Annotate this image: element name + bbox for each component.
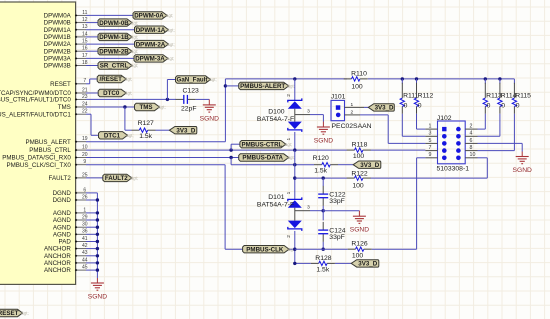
pin 8 J102	[465, 150, 477, 152]
junction R112 top	[415, 77, 418, 80]
svg-text:/RESET: /RESET	[100, 76, 123, 83]
resistor R126	[348, 248, 356, 250]
svg-text:1: 1	[286, 191, 292, 194]
ground SGND C123	[208, 99, 210, 105]
svg-text:3: 3	[307, 109, 310, 115]
wire FAULT2	[86, 177, 103, 179]
wire ground pin	[86, 269, 97, 271]
wire CLK row east	[295, 248, 348, 250]
wire top bus	[225, 78, 347, 80]
pin 29 AGND	[76, 219, 86, 221]
wire D101 bottom lead	[294, 231, 296, 264]
svg-text:SGND: SGND	[350, 227, 369, 234]
wire ground pin	[86, 199, 97, 201]
svg-text:0: 0	[487, 103, 491, 110]
wire R127 to 3V3_D	[156, 129, 170, 131]
pin 41 PAD	[76, 241, 86, 243]
junction D100 bottom	[293, 148, 296, 151]
pin 36 AGND	[76, 233, 86, 235]
wire R112 to J102 pin1	[416, 114, 418, 129]
wire R115 to J102	[513, 114, 515, 151]
svg-text:R126: R126	[351, 240, 367, 247]
wire SR_CTRL	[86, 65, 98, 67]
wire DPWM-2B	[86, 50, 98, 52]
svg-text:/RESET: /RESET	[0, 310, 19, 317]
svg-text:1: 1	[429, 124, 432, 130]
svg-text:&gt;: &gt;	[167, 27, 174, 32]
svg-text:FAULT2: FAULT2	[105, 175, 128, 182]
net label PMBUS-ALERT	[239, 82, 289, 89]
pin 25 FAULT2	[76, 177, 86, 179]
ground SGND D100	[322, 122, 324, 128]
svg-text:PMBUS-CTRL: PMBUS-CTRL	[241, 141, 282, 148]
pin 2 J102	[465, 128, 477, 130]
net label FAULT2	[103, 174, 132, 181]
wire J101 pin2	[345, 114, 361, 116]
svg-text:SR_CTRL: SR_CTRL	[100, 63, 129, 70]
junction PMBUS-ALERT flag	[224, 84, 227, 87]
net label DPWM-1B	[98, 33, 132, 40]
pin 3 J102	[425, 135, 437, 137]
resistor R114	[499, 79, 501, 84]
svg-text:PMBUS-CLK: PMBUS-CLK	[246, 246, 284, 253]
svg-text:DPWM-0B: DPWM-0B	[99, 20, 129, 27]
wire DPWM-3A	[86, 57, 134, 59]
junction D101 pin3	[322, 209, 325, 212]
wire R128 row	[295, 262, 311, 264]
svg-text:7: 7	[83, 78, 86, 84]
wire TMS to R127	[124, 107, 126, 130]
wire pin6 to SGND	[478, 142, 523, 144]
wire PMBUS_CTRL row	[86, 149, 347, 151]
net label SR_CTRL	[98, 62, 132, 69]
ground SGND mid	[358, 211, 360, 217]
svg-text:TMS: TMS	[58, 104, 71, 111]
svg-text:DPWM1B: DPWM1B	[44, 34, 71, 41]
svg-text:R118: R118	[352, 141, 368, 148]
svg-text:&gt;: &gt;	[167, 42, 174, 47]
wire DTC0	[86, 92, 98, 94]
svg-text:8: 8	[470, 145, 473, 151]
svg-text:&gt;: &gt;	[287, 84, 294, 89]
svg-text:&gt;: &gt;	[21, 311, 28, 316]
svg-text:R115: R115	[515, 93, 531, 100]
wire PMBUS_CLK row	[86, 164, 225, 166]
pin 26 DGND	[76, 199, 86, 201]
net label PMBUS-DATA	[239, 154, 289, 161]
svg-text:BAT54A-7-F: BAT54A-7-F	[257, 201, 294, 208]
pin 19 PMBUS_ALERT	[76, 141, 86, 143]
svg-text:&gt;: &gt;	[158, 105, 165, 110]
wire R113 to J102	[484, 114, 486, 129]
resistor R120	[314, 164, 322, 166]
svg-text:&gt;: &gt;	[166, 13, 173, 18]
wire R111 to J102 pin3	[401, 114, 403, 137]
svg-text:3: 3	[429, 131, 432, 137]
resistor R118	[347, 149, 355, 151]
wire to mid SGND	[323, 210, 359, 212]
wire ground pin	[86, 219, 97, 221]
net label DPWM-3A	[134, 55, 168, 62]
ground SGND J102	[521, 152, 523, 157]
wire ground pin	[86, 226, 97, 228]
svg-text:9: 9	[83, 159, 86, 165]
wire R122 to J102 pin10	[486, 158, 488, 178]
svg-text:AGND: AGND	[53, 224, 71, 231]
svg-text:DPWM-2B: DPWM-2B	[99, 48, 129, 55]
svg-text:100: 100	[353, 153, 365, 160]
power port 3V3_D J101	[368, 104, 394, 111]
svg-text:DPWM3A: DPWM3A	[44, 56, 72, 63]
wire DATA drop	[230, 158, 232, 165]
pin 1 J102	[425, 128, 437, 130]
wire J101 pin1	[345, 106, 365, 108]
net label DPWM-0A	[133, 12, 167, 19]
svg-text:&gt;: &gt;	[125, 91, 132, 96]
resistor R127	[132, 129, 140, 131]
wire D101 pin3	[295, 210, 310, 212]
pin 44 ANCHOR	[76, 262, 86, 264]
net label TMS	[135, 103, 160, 110]
pin 13 DPWM1A	[76, 29, 86, 31]
wire D100 sgnd drop	[322, 115, 324, 122]
svg-text:DGND: DGND	[53, 197, 72, 204]
resistor R110	[344, 78, 352, 80]
wire TMS	[86, 106, 135, 108]
power port 3V3_D R128	[351, 260, 379, 267]
pin 1 AGND	[76, 212, 86, 214]
svg-text:DPWM-3A: DPWM-3A	[135, 56, 165, 63]
svg-text:PMBUS-ALERT: PMBUS-ALERT	[240, 83, 285, 90]
svg-text:GaN_Fault: GaN_Fault	[177, 77, 208, 84]
svg-text:C123: C123	[183, 88, 199, 95]
svg-text:AGND: AGND	[53, 217, 71, 224]
svg-text:DPWM0A: DPWM0A	[44, 13, 72, 20]
svg-text:R128: R128	[315, 255, 331, 262]
junction PMBUS-CTRL flag	[229, 148, 232, 151]
wire R126 to J102 pin9	[416, 158, 418, 249]
svg-text:PEC02SAAN: PEC02SAAN	[332, 123, 372, 130]
wire ground pin	[86, 233, 97, 235]
svg-text:5103308-1: 5103308-1	[437, 165, 470, 172]
net label DPWM-1A	[135, 26, 169, 33]
resistor R112	[416, 79, 418, 84]
svg-text:R122: R122	[351, 171, 367, 178]
net label DPWM-0B	[98, 19, 132, 26]
svg-text:PMBUS_CTRL/FAULT1/DTC0: PMBUS_CTRL/FAULT1/DTC0	[0, 97, 71, 104]
svg-text:5: 5	[429, 138, 432, 144]
svg-text:ANCHOR: ANCHOR	[44, 267, 71, 274]
svg-text:22pF: 22pF	[181, 105, 197, 112]
net label DTC1	[99, 132, 128, 139]
svg-text:SGND: SGND	[200, 115, 219, 122]
svg-text:PMBUS_ALERT: PMBUS_ALERT	[26, 139, 71, 146]
svg-text:0: 0	[516, 103, 520, 110]
svg-text:D100: D100	[268, 109, 284, 116]
svg-text:&gt;: &gt;	[131, 63, 138, 68]
svg-text:R110: R110	[351, 71, 367, 78]
svg-text:&gt;: &gt;	[167, 56, 174, 61]
pin 16 DPWM2B	[76, 50, 86, 52]
capacitor C124	[322, 222, 324, 230]
pin 24 TMS	[76, 106, 86, 108]
svg-text:1.5k: 1.5k	[316, 267, 329, 274]
wire DTC1	[86, 113, 91, 115]
diode D101	[288, 197, 302, 201]
svg-text:1: 1	[286, 138, 292, 141]
pin 9 J102	[425, 157, 437, 159]
wire DPWM-0A	[86, 14, 133, 16]
pin 7 J102	[425, 150, 437, 152]
svg-text:ANCHOR: ANCHOR	[44, 260, 71, 267]
wire R120 to 3V3_D	[338, 164, 353, 166]
wire GaN_Fault riser	[166, 80, 168, 100]
svg-text:FAULT2: FAULT2	[49, 175, 72, 182]
svg-text:2: 2	[350, 109, 353, 115]
wire mid bus	[294, 150, 296, 199]
svg-text:&gt;: &gt;	[285, 142, 292, 147]
svg-text:3V3_D: 3V3_D	[360, 162, 379, 169]
junction TMS	[123, 105, 126, 108]
wire D100 top lead	[294, 79, 296, 101]
net label PMBUS-CTRL	[240, 141, 286, 148]
pin 6 J102	[465, 142, 477, 144]
resistor R115	[513, 79, 515, 84]
svg-text:2: 2	[286, 94, 292, 97]
svg-text:6: 6	[470, 138, 473, 144]
svg-text:17: 17	[82, 53, 88, 59]
wire D100 pin3	[295, 114, 310, 116]
net label /RESET	[97, 75, 126, 82]
wire C123 to SGND	[196, 98, 210, 100]
junction C124 bottom	[322, 248, 325, 251]
svg-text:16: 16	[82, 46, 88, 52]
svg-text:J102: J102	[437, 115, 452, 122]
wire ground pin	[86, 192, 97, 194]
wire R122 row	[295, 177, 347, 179]
net label DTC0	[98, 89, 126, 96]
svg-text:J101: J101	[331, 94, 346, 101]
svg-text:0: 0	[418, 103, 422, 110]
resistor R113	[484, 79, 486, 84]
svg-text:1.5k: 1.5k	[314, 167, 327, 174]
svg-text:4: 4	[470, 131, 473, 137]
svg-text:D101: D101	[268, 194, 284, 201]
svg-text:DTC1: DTC1	[104, 133, 121, 140]
svg-text:2: 2	[286, 235, 292, 238]
pin 11 DPWM0A	[76, 14, 86, 16]
svg-text:SGND: SGND	[513, 167, 532, 174]
svg-text:&gt;: &gt;	[209, 77, 216, 82]
junction C122 top	[322, 176, 325, 179]
wire to PMBUS-ALERT flag	[225, 85, 238, 87]
junction DATA bus	[293, 163, 296, 166]
net label GaN_Fault	[176, 76, 211, 83]
svg-text:RESET: RESET	[50, 81, 71, 88]
svg-text:DTC0: DTC0	[103, 90, 120, 97]
capacitor C122	[322, 178, 324, 186]
svg-text:PAD: PAD	[59, 239, 72, 246]
svg-text:R120: R120	[313, 155, 329, 162]
junction GaN_Fault	[166, 98, 169, 101]
pin 15 DPWM2A	[76, 43, 86, 45]
resistor R122	[347, 177, 355, 179]
svg-text:PMBUS_ALERT/FAULT0/DTC1: PMBUS_ALERT/FAULT0/DTC1	[0, 111, 71, 118]
junction PMBUS-DATA	[229, 156, 232, 159]
wire PMBUS-CTRL stub	[230, 144, 232, 150]
svg-text:PMBUS_CLK/SCI_TX0: PMBUS_CLK/SCI_TX0	[6, 162, 71, 169]
pin 21 TCK/TCAP/SYNC/PWM0/DTC0	[76, 92, 86, 94]
svg-text:6: 6	[83, 187, 86, 193]
junction R111 top	[401, 77, 404, 80]
pin 9 PMBUS_CLK/SCI_TX0	[76, 164, 86, 166]
svg-text:ANCHOR: ANCHOR	[44, 253, 71, 260]
svg-text:100: 100	[352, 252, 364, 259]
pin 45 ANCHOR	[76, 269, 86, 271]
svg-text:PMBUS-DATA: PMBUS-DATA	[242, 155, 283, 162]
power port 3V3_D R127	[169, 127, 196, 134]
svg-text:7: 7	[429, 145, 432, 151]
pin 18 DPWM3B	[76, 65, 86, 67]
svg-text:&gt;: &gt;	[131, 49, 138, 54]
wire DPWM-1A	[86, 29, 135, 31]
wire DPWM-0B	[86, 22, 98, 24]
svg-text:&gt;: &gt;	[131, 35, 138, 40]
junction D100 top	[293, 77, 296, 80]
junction R113	[484, 77, 487, 80]
svg-text:R127: R127	[138, 120, 154, 127]
pin 10 PMBUS_CTRL	[76, 149, 86, 151]
wire /RESET	[86, 83, 90, 85]
svg-text:AGND: AGND	[53, 231, 71, 238]
svg-text:0: 0	[404, 103, 408, 110]
pin 7 RESET	[76, 83, 86, 85]
connector J102	[438, 121, 466, 164]
svg-text:1: 1	[350, 102, 353, 108]
wire ground pin	[86, 248, 97, 250]
svg-text:SGND: SGND	[314, 137, 333, 144]
svg-text:&gt;: &gt;	[126, 133, 133, 138]
svg-text:DPWM-1B: DPWM-1B	[99, 34, 129, 41]
svg-text:&gt;: &gt;	[287, 155, 294, 160]
wire PMBUS_ALERT row	[86, 141, 225, 143]
svg-text:AGND: AGND	[53, 210, 71, 217]
wire DPWM-1B	[86, 36, 98, 38]
pin 22 PMBUS_ALERT/FAULT0/DTC1	[76, 113, 86, 115]
svg-text:BAT54A-7-F: BAT54A-7-F	[257, 116, 294, 123]
svg-text:1.5k: 1.5k	[139, 133, 152, 140]
pin 14 DPWM1B	[76, 36, 86, 38]
svg-text:&gt;: &gt;	[125, 77, 132, 82]
diode D100	[288, 98, 302, 102]
junction R128	[293, 262, 296, 265]
junction R114	[498, 77, 501, 80]
svg-text:100: 100	[352, 182, 364, 189]
pin 20 PMBUS_DATA/SCI_RX0	[76, 157, 86, 159]
svg-text:3V3_D: 3V3_D	[176, 127, 195, 134]
wire PMBUS_DATA row	[86, 157, 239, 159]
pin 17 DPWM3A	[76, 57, 86, 59]
resistor R111	[401, 79, 403, 84]
svg-text:DPWM-1A: DPWM-1A	[136, 27, 166, 34]
pin 4 J102	[465, 135, 477, 137]
wire ground pin	[86, 241, 97, 243]
svg-text:ANCHOR: ANCHOR	[44, 246, 71, 253]
wire D100 bottom lead	[294, 132, 296, 150]
svg-text:0: 0	[501, 103, 505, 110]
pin 23 PMBUS_CTRL/FAULT1/DTC0	[76, 98, 86, 100]
svg-text:&gt;: &gt;	[131, 20, 138, 25]
pin 6 DGND	[76, 192, 86, 194]
svg-text:DGND: DGND	[53, 190, 72, 197]
svg-text:DPWM2B: DPWM2B	[44, 48, 71, 55]
pin 5 J102	[425, 142, 437, 144]
ground SGND IC	[96, 278, 98, 283]
svg-text:DPWM-0A: DPWM-0A	[134, 13, 164, 20]
wire pin23 to C123	[86, 98, 176, 100]
wire ground pin	[86, 255, 97, 257]
pin 42 ANCHOR	[76, 248, 86, 250]
svg-text:10: 10	[470, 152, 476, 158]
wire ground pin	[86, 212, 97, 214]
svg-text:DPWM3B: DPWM3B	[44, 63, 71, 70]
svg-text:33pF: 33pF	[329, 234, 345, 241]
svg-text:DPWM2A: DPWM2A	[44, 41, 72, 48]
svg-text:3: 3	[307, 205, 310, 211]
svg-text:14: 14	[82, 31, 88, 37]
svg-text:DPWM1A: DPWM1A	[44, 27, 72, 34]
wire DPWM-2A	[86, 43, 135, 45]
pin 30 AGND	[76, 226, 86, 228]
net label DPWM-2B	[98, 48, 132, 55]
svg-text:R112: R112	[418, 93, 434, 100]
resistor R128	[311, 262, 319, 264]
svg-text:TMS: TMS	[139, 104, 152, 111]
svg-text:100: 100	[351, 83, 363, 90]
svg-text:33pF: 33pF	[329, 198, 345, 205]
svg-text:2: 2	[470, 124, 473, 130]
wire R114 to J102	[499, 114, 501, 137]
connector J101	[331, 100, 345, 120]
svg-text:DPWM0B: DPWM0B	[44, 20, 71, 27]
svg-text:3V3_D: 3V3_D	[358, 261, 377, 268]
svg-text:PMBUS_CTRL: PMBUS_CTRL	[29, 147, 71, 154]
pin 12 DPWM0B	[76, 22, 86, 24]
svg-text:SGND: SGND	[88, 293, 107, 300]
net label /RESET bottom	[0, 309, 23, 316]
svg-text:9: 9	[429, 152, 432, 158]
power port 3V3_D R120	[353, 161, 381, 168]
svg-text:DPWM-2A: DPWM-2A	[136, 41, 166, 48]
wire ground pin	[86, 262, 97, 264]
junction R122 row	[293, 176, 296, 179]
svg-text:1: 1	[83, 207, 86, 213]
svg-text:PMBUS_DATA/SCI_RX0: PMBUS_DATA/SCI_RX0	[2, 155, 71, 162]
pin 10 J102	[465, 157, 477, 159]
pin 43 ANCHOR	[76, 255, 86, 257]
net label PMBUS-CLK	[243, 246, 290, 253]
IC U100 block	[0, 2, 76, 284]
wire ground bus	[96, 193, 98, 278]
wire PMBUS_ALERT riser	[224, 79, 226, 142]
capacitor C123	[176, 98, 184, 100]
svg-text:3V3_D: 3V3_D	[375, 105, 394, 112]
svg-text:&gt;: &gt;	[130, 176, 137, 181]
junction CLK row	[293, 248, 296, 251]
net label DPWM-2A	[135, 40, 169, 47]
